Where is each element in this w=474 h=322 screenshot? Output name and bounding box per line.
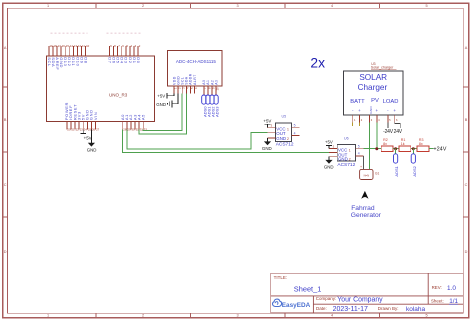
svg-text:GND: GND: [338, 157, 348, 162]
svg-text:ADC-4CH-ADS1115: ADC-4CH-ADS1115: [176, 59, 217, 64]
svg-text:U6: U6: [344, 137, 349, 141]
svg-text:+: +: [393, 108, 396, 113]
svg-text:REV:: REV:: [432, 285, 442, 290]
svg-text:24: 24: [84, 128, 88, 132]
U6 pins 3 1 2 left, 5 4 right: [329, 144, 364, 156]
label Fahrrad Generator: [351, 205, 382, 219]
cursor arrow marker: [361, 191, 368, 199]
dangling yellow wire at BATT-: [352, 122, 354, 126]
current sensor U6 ACS712: [337, 137, 355, 169]
svg-text:21: 21: [72, 128, 76, 132]
wire A4 to ADS SDA: [139, 94, 186, 135]
generator G1 (bicycle dynamo): [360, 165, 380, 179]
MCU module UNO_R3 (Arduino Uno): [47, 56, 155, 121]
svg-text:33: 33: [144, 128, 148, 132]
svg-text:ADS2: ADS2: [412, 165, 417, 176]
junction R1/R3 node ADS2: [412, 147, 415, 150]
svg-text:Company:: Company:: [316, 296, 337, 301]
svg-text:3: 3: [236, 4, 238, 8]
dangling yellow wire at BATT+: [358, 122, 360, 126]
svg-text:Sheet:: Sheet:: [431, 298, 444, 303]
wire R1 to R3: [411, 148, 417, 150]
svg-text:1k: 1k: [401, 142, 405, 146]
svg-text:1: 1: [47, 314, 49, 318]
UNO_R3 bottom-right pins A0 A1 A2 A3 A4 A5: [120, 114, 147, 132]
junction at PV+ / rail: [375, 147, 378, 150]
svg-text:2: 2: [287, 137, 289, 141]
ground GND flag at U6 GND: [324, 157, 334, 170]
ADC module ADC-4CH-ADS1115: [168, 51, 222, 87]
svg-text:ADS1: ADS1: [394, 165, 399, 176]
svg-text:8x: 8x: [383, 142, 387, 146]
svg-text:+24V: +24V: [433, 146, 446, 152]
svg-text:D8: D8: [83, 57, 88, 63]
svg-text:+: +: [358, 108, 361, 113]
svg-text:5: 5: [358, 145, 360, 149]
svg-text:2x: 2x: [310, 55, 325, 70]
svg-text:VIN: VIN: [93, 112, 98, 120]
wire A0 to U6 OUT: [123, 129, 329, 152]
svg-text:1: 1: [287, 127, 289, 131]
svg-text:LOAD: LOAD: [383, 99, 399, 105]
svg-text:Drawn By:: Drawn By:: [378, 306, 399, 311]
svg-text:ACS712: ACS712: [276, 142, 294, 148]
svg-text:4: 4: [331, 4, 333, 8]
svg-text:2: 2: [349, 158, 351, 162]
U3 pins: BATT- BATT+ GND PV+ LOAD- LOAD+: [352, 106, 398, 123]
svg-text:PV: PV: [371, 98, 379, 104]
svg-text:11: 11: [82, 44, 85, 48]
svg-text:+5V: +5V: [157, 93, 165, 98]
svg-text:4: 4: [331, 314, 333, 318]
svg-text:D: D: [4, 250, 7, 254]
svg-text:C: C: [4, 183, 7, 187]
svg-text:GND: GND: [156, 102, 166, 107]
svg-text:Charger: Charger: [358, 83, 388, 92]
svg-text:13: 13: [74, 44, 78, 48]
svg-text:20: 20: [67, 128, 71, 132]
svg-text:G1: G1: [375, 171, 379, 175]
svg-text:4: 4: [294, 131, 296, 135]
svg-text:3: 3: [236, 314, 238, 318]
wire U6 pin5 to R2: [364, 148, 382, 150]
svg-text:A3: A3: [214, 80, 218, 85]
svg-text:24V: 24V: [394, 129, 403, 135]
svg-text:ALRT: ALRT: [193, 74, 197, 85]
svg-text:kolaha: kolaha: [406, 306, 426, 313]
wire U6 pin4 down to generator left pin: [362, 156, 364, 170]
svg-text:8x: 8x: [419, 142, 423, 146]
wire A1 to U5 OUT: [127, 129, 268, 149]
svg-text:N=N: N=N: [364, 173, 370, 177]
faint pin-number ghost row above top-left pins: [51, 32, 142, 34]
title block: [271, 273, 464, 313]
UNO_R3 top-left pins SCL SDA AREF GND D13 D12 D11 D10 D9 D8: [47, 33, 464, 313]
wire R2 to R1: [393, 148, 399, 150]
svg-text:27: 27: [96, 128, 100, 132]
U5 pins 3 1 2 left, 5 4 right: [268, 124, 300, 139]
svg-text:TITLE:: TITLE:: [274, 275, 288, 280]
svg-text:10: 10: [86, 44, 90, 48]
svg-text:C: C: [465, 183, 468, 187]
svg-text:16: 16: [62, 44, 66, 48]
svg-text:D: D: [465, 250, 468, 254]
svg-text:1: 1: [349, 149, 351, 153]
svg-text:Sheet_1: Sheet_1: [294, 284, 322, 293]
svg-text:B: B: [465, 118, 468, 122]
UNO_R3 bottom-left pins POWER IOREF RESET 3V3 5V GND GND VIN: [64, 102, 100, 132]
wire U3 PV+ down to resistor rail junction: [376, 122, 378, 148]
net port ADS1 at R2/R1 junction: [394, 149, 400, 177]
svg-text:ACS712: ACS712: [337, 162, 355, 168]
svg-text:UNO_R3: UNO_R3: [109, 92, 128, 97]
svg-text:2023-11-17: 2023-11-17: [333, 306, 368, 313]
svg-text:GND: GND: [324, 165, 334, 170]
svg-text:+5V: +5V: [325, 139, 333, 144]
ADS1115 bottom-left pins VDD GND SCL SDA ADDR ALRT: [172, 73, 198, 93]
EasyEDA logo: [273, 299, 311, 309]
svg-text:22: 22: [76, 128, 80, 132]
resistor R3 8k: [417, 138, 429, 151]
+5V power flag at ADS1115 VDD: [157, 93, 174, 98]
svg-text:1: 1: [47, 4, 49, 8]
svg-text:+5V: +5V: [84, 135, 92, 140]
svg-text:5: 5: [425, 314, 427, 318]
svg-text:GND: GND: [276, 136, 286, 141]
resistor R2 8k: [381, 138, 393, 151]
svg-text:25: 25: [88, 128, 92, 132]
svg-text:GND: GND: [87, 147, 97, 152]
wire A5 to ADS SCL: [143, 94, 182, 131]
svg-text:2: 2: [142, 314, 144, 318]
svg-text:GND: GND: [369, 106, 373, 114]
svg-text:Date:: Date:: [316, 306, 327, 311]
svg-text:+5V: +5V: [263, 119, 271, 124]
svg-text:SOLAR: SOLAR: [359, 73, 387, 82]
svg-text:5: 5: [294, 124, 296, 128]
wire LOAD+ to net 24V: [395, 122, 401, 128]
wire R3 to +24V: [429, 148, 433, 150]
svg-text:+: +: [376, 108, 379, 113]
svg-text:GND: GND: [262, 146, 272, 151]
svg-text:+: +: [360, 165, 362, 169]
solar charge controller U3 Solar_charger: [344, 62, 403, 115]
svg-text:17: 17: [58, 44, 62, 48]
svg-text:26: 26: [92, 128, 96, 132]
svg-text:30: 30: [132, 128, 136, 132]
net ports ADS0 ADS1 ADS2 ADS3 below ADS1115 inputs: [202, 95, 220, 117]
svg-text:10: 10: [216, 87, 220, 91]
svg-text:29: 29: [127, 128, 131, 132]
net port ADS2 at R1/R3 junction: [411, 149, 417, 177]
ground GND flag at ADS1115 GND: [156, 94, 178, 108]
svg-text:ADS3: ADS3: [215, 106, 220, 117]
svg-text:U5: U5: [282, 115, 287, 119]
UNO_R3 top-right pins D7 D6 D5 D4 D3 D2 D1 D0: [107, 44, 141, 64]
+5V power flag at UNO 5V pin: [81, 129, 92, 140]
svg-text:Solar_charger: Solar_charger: [371, 66, 394, 70]
wire U3 GND pin down to generator right pin: [369, 122, 371, 169]
wire LOAD- to net -24V: [387, 122, 389, 128]
svg-text:A5: A5: [141, 114, 146, 120]
svg-text:D0: D0: [136, 57, 141, 63]
ADS1115 bottom-right pins A0 A1 A2 A3: [202, 80, 219, 95]
svg-text:Generator: Generator: [351, 212, 382, 219]
svg-text:EasyEDA: EasyEDA: [282, 302, 311, 309]
svg-text:4: 4: [358, 152, 360, 156]
resistor R1 1k: [399, 138, 411, 151]
ground GND flag at U5 GND: [262, 138, 272, 151]
svg-text:2: 2: [142, 4, 144, 8]
svg-text:A: A: [465, 46, 468, 50]
+5V power flag at U6 VCC: [325, 139, 333, 148]
+5V power flag at U5 VCC: [263, 119, 271, 128]
ground GND flag at UNO GND pin: [87, 129, 97, 152]
svg-text:23: 23: [80, 128, 84, 132]
current sensor U5 ACS712: [276, 115, 294, 148]
svg-text:Your Company: Your Company: [337, 296, 383, 303]
svg-text:-24V: -24V: [383, 129, 394, 135]
svg-text:1.0: 1.0: [447, 285, 456, 292]
svg-text:5: 5: [425, 4, 427, 8]
junction R2/R1 node ADS1: [394, 147, 397, 150]
title block texts: [274, 275, 459, 313]
svg-text:BATT: BATT: [350, 99, 365, 105]
